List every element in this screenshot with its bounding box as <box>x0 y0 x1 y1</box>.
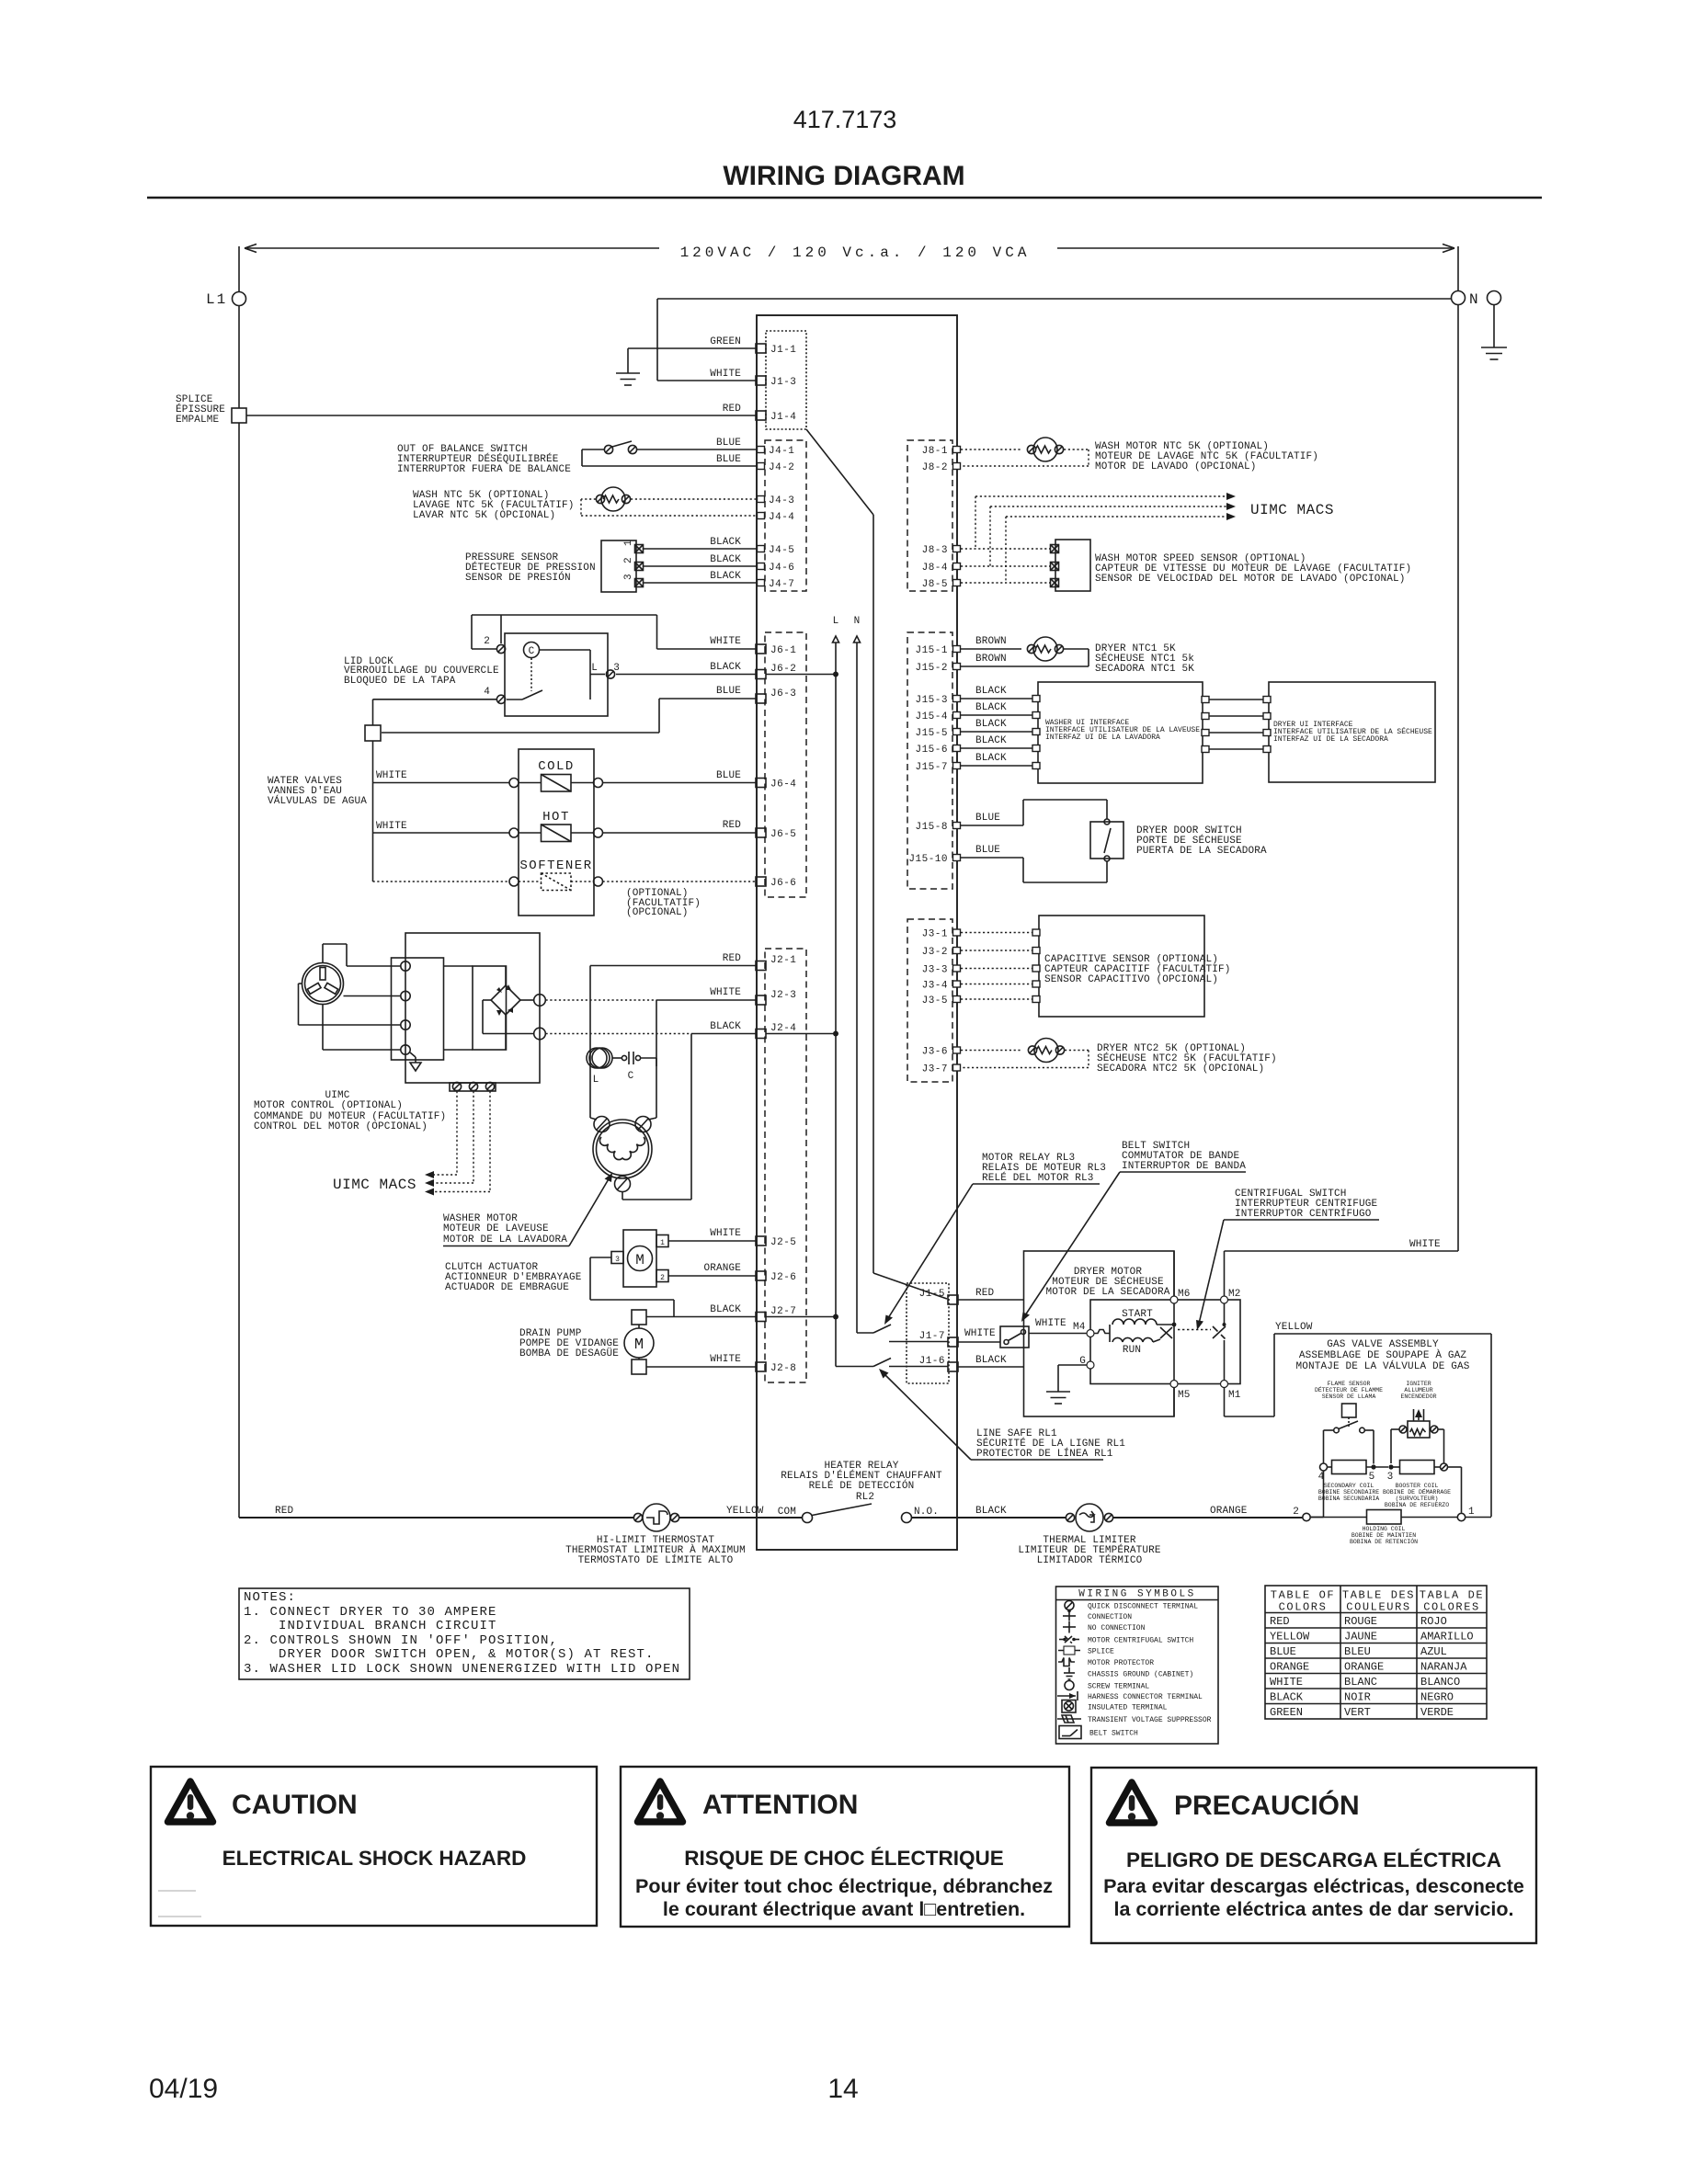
svg-text:RED: RED <box>723 953 742 964</box>
svg-text:2: 2 <box>623 557 634 563</box>
svg-text:BLEU: BLEU <box>1344 1645 1371 1658</box>
svg-text:COLD: COLD <box>538 759 575 774</box>
svg-text:(SURVOLTEUR): (SURVOLTEUR) <box>1396 1496 1439 1502</box>
120VAC right arrow line <box>1057 245 1454 253</box>
svg-text:DÉTECTEUR DE PRESSION: DÉTECTEUR DE PRESSION <box>465 561 596 574</box>
svg-text:J1-4: J1-4 <box>770 412 796 423</box>
connector J1 lower box <box>907 1283 949 1383</box>
svg-text:BLANCO: BLANCO <box>1420 1676 1460 1689</box>
svg-text:WHITE: WHITE <box>376 821 407 832</box>
UIMC MACS arrows left <box>333 1091 490 1196</box>
symbol connection <box>1063 1610 1132 1621</box>
bottom rail left with RED <box>239 1506 633 1518</box>
igniter <box>1399 1381 1438 1438</box>
wire WHITE J2-3 <box>546 987 757 1118</box>
pin J15-5 <box>915 728 960 739</box>
svg-text:ORANGE: ORANGE <box>1270 1661 1309 1674</box>
svg-text:RISQUE DE CHOC ÉLECTRIQUE: RISQUE DE CHOC ÉLECTRIQUE <box>684 1847 1004 1870</box>
wiring symbols table <box>1056 1587 1219 1744</box>
svg-text:J4-7: J4-7 <box>769 579 794 590</box>
heater relay RL2 contact <box>679 1504 939 1523</box>
svg-text:BLACK: BLACK <box>710 1021 741 1032</box>
svg-text:J6-3: J6-3 <box>770 688 796 700</box>
svg-text:WHITE: WHITE <box>376 770 407 781</box>
svg-text:120VAC / 120 Vc.a. / 120 VCA: 120VAC / 120 Vc.a. / 120 VCA <box>680 245 1031 261</box>
motor relay RL3 label with leader <box>884 1153 1106 1325</box>
svg-text:BLACK: BLACK <box>975 735 1007 746</box>
wire N vertical rail <box>1457 246 1459 291</box>
svg-text:J4-2: J4-2 <box>769 462 794 473</box>
svg-text:MOTEUR DE SÉCHEUSE: MOTEUR DE SÉCHEUSE <box>1052 1275 1164 1288</box>
connector J15 box <box>907 632 952 889</box>
pin J8-1 <box>922 446 961 457</box>
svg-text:BLACK: BLACK <box>1270 1691 1304 1704</box>
water valve box <box>519 749 594 916</box>
pin J1-5 <box>919 1289 958 1304</box>
wire BLACK bottom frame to M5 <box>1173 1388 1175 1417</box>
svg-text:2. CONTROLS SHOWN IN 'OFF' POS: 2. CONTROLS SHOWN IN 'OFF' POSITION, <box>244 1633 558 1648</box>
pin J2-1 <box>756 955 796 971</box>
svg-text:FLAME SENSOR: FLAME SENSOR <box>1328 1381 1371 1387</box>
pin J6-4 <box>756 779 796 791</box>
holding coil on rail <box>1293 1471 1491 1545</box>
connector J4 box <box>765 440 806 591</box>
svg-text:MOTOR PROTECTOR: MOTOR PROTECTOR <box>1088 1659 1154 1667</box>
svg-text:M5: M5 <box>1178 1390 1191 1401</box>
svg-text:WHITE: WHITE <box>710 987 741 998</box>
svg-text:3: 3 <box>1387 1472 1394 1483</box>
svg-text:Para evitar descargas eléctric: Para evitar descargas eléctricas, descon… <box>1103 1875 1524 1897</box>
dryer door switch <box>961 800 1267 882</box>
dryer UI interface <box>1263 682 1435 782</box>
pin J4-3 <box>758 495 795 506</box>
symbol no connection <box>1063 1621 1146 1633</box>
dryer motor start/run windings <box>1094 1309 1176 1356</box>
svg-text:INTERRUPTOR CENTRÍFUGO: INTERRUPTOR CENTRÍFUGO <box>1235 1207 1372 1220</box>
svg-text:JAUNE: JAUNE <box>1344 1631 1377 1644</box>
bottom rail BLACK segment <box>912 1506 1067 1518</box>
softener valve (optional) <box>373 859 603 891</box>
svg-text:SÉCHEUSE NTC1 5k: SÉCHEUSE NTC1 5k <box>1095 652 1194 665</box>
svg-text:M6: M6 <box>1178 1289 1191 1300</box>
pin J8-2 <box>922 462 961 473</box>
svg-text:HOT: HOT <box>542 810 570 825</box>
svg-text:BLUE: BLUE <box>975 813 1000 824</box>
pin J2-6 <box>756 1271 796 1283</box>
UIMC fan symbol <box>302 963 344 1005</box>
svg-text:5: 5 <box>1369 1472 1375 1483</box>
svg-text:J1-3: J1-3 <box>770 377 796 388</box>
svg-text:BOMBA DE DESAGÜE: BOMBA DE DESAGÜE <box>519 1348 619 1359</box>
svg-text:J15-7: J15-7 <box>915 762 948 773</box>
pin J15-2 <box>915 663 960 674</box>
svg-text:BOBINE SECONDAIRE: BOBINE SECONDAIRE <box>1318 1489 1379 1496</box>
svg-text:ORANGE: ORANGE <box>1344 1661 1384 1674</box>
svg-text:THERMOSTAT LIMITEUR À MAXIMUM: THERMOSTAT LIMITEUR À MAXIMUM <box>565 1543 746 1556</box>
svg-text:LIMITEUR DE TEMPÉRATURE: LIMITEUR DE TEMPÉRATURE <box>1018 1543 1161 1556</box>
chassis ground under relay block <box>410 1052 421 1071</box>
svg-text:UIMC MACS: UIMC MACS <box>333 1177 416 1193</box>
svg-text:SCREW TERMINAL: SCREW TERMINAL <box>1088 1683 1149 1691</box>
svg-text:PUERTA DE LA SECADORA: PUERTA DE LA SECADORA <box>1136 846 1267 857</box>
wash motor speed sensor <box>961 540 1411 591</box>
connector J1 upper box <box>766 331 806 429</box>
svg-text:1: 1 <box>660 1239 665 1247</box>
pin J6-1 <box>756 644 796 656</box>
lid lock <box>344 633 620 716</box>
svg-text:DÉTECTEUR DE FLAMME: DÉTECTEUR DE FLAMME <box>1315 1386 1383 1393</box>
svg-text:ELECTRICAL SHOCK HAZARD: ELECTRICAL SHOCK HAZARD <box>222 1847 527 1870</box>
wire RED J2-1 <box>590 953 756 1118</box>
svg-text:ATTENTION: ATTENTION <box>702 1790 858 1820</box>
pin J2-8 <box>756 1362 796 1374</box>
line safe RL1 label with leader <box>879 1369 1125 1460</box>
svg-text:INSULATED TERMINAL: INSULATED TERMINAL <box>1088 1704 1168 1712</box>
wire RED splice to J1-4 <box>246 404 756 415</box>
svg-text:INTERRUPTOR DE BANDA: INTERRUPTOR DE BANDA <box>1122 1161 1246 1172</box>
svg-text:BLUE: BLUE <box>716 770 741 781</box>
svg-text:C: C <box>529 646 535 657</box>
pin J4-6 <box>758 563 795 574</box>
svg-text:GREEN: GREEN <box>710 336 741 347</box>
svg-text:MOTOR DE LAVADO (OPCIONAL): MOTOR DE LAVADO (OPCIONAL) <box>1095 461 1257 472</box>
pin J1-4 <box>756 411 796 423</box>
svg-text:BOBINE DE DÉMARRAGE: BOBINE DE DÉMARRAGE <box>1383 1488 1451 1496</box>
wire clutch common to J2-7 <box>590 1257 674 1317</box>
pin J3-6 <box>922 1047 961 1058</box>
svg-text:CAUTION: CAUTION <box>232 1790 358 1820</box>
svg-text:RED: RED <box>723 820 742 831</box>
svg-text:J1-6: J1-6 <box>919 1356 945 1367</box>
svg-text:J6-2: J6-2 <box>770 664 796 675</box>
svg-text:417.7173: 417.7173 <box>793 106 897 133</box>
svg-text:J4-5: J4-5 <box>769 545 794 556</box>
node N terminal <box>1452 291 1501 309</box>
svg-text:ORANGE: ORANGE <box>703 1263 741 1274</box>
svg-text:YELLOW: YELLOW <box>1270 1631 1310 1644</box>
svg-text:SECADORA NTC2 5K (OPCIONAL): SECADORA NTC2 5K (OPCIONAL) <box>1097 1064 1264 1075</box>
svg-text:ROUGE: ROUGE <box>1344 1615 1377 1628</box>
svg-text:ASSEMBLAGE DE SOUPAPE À GAZ: ASSEMBLAGE DE SOUPAPE À GAZ <box>1299 1348 1467 1361</box>
svg-text:BLOQUEO DE LA TAPA: BLOQUEO DE LA TAPA <box>344 676 456 687</box>
connector J8 box <box>907 440 952 591</box>
pin J4-5 <box>758 545 795 556</box>
svg-text:COLORS: COLORS <box>1279 1601 1328 1614</box>
svg-text:3: 3 <box>615 1256 620 1264</box>
svg-text:J8-2: J8-2 <box>922 462 948 473</box>
svg-text:J15-2: J15-2 <box>915 663 948 674</box>
svg-text:BLANC: BLANC <box>1344 1676 1377 1689</box>
wire WHITE M2 to N line <box>1225 1239 1459 1296</box>
relay RL3 contact (N feed to J1-7) <box>857 1325 948 1342</box>
svg-text:3. WASHER LID LOCK SHOWN UNENE: 3. WASHER LID LOCK SHOWN UNENERGIZED WIT… <box>244 1662 680 1677</box>
wire ORANGE J2-6 <box>668 1263 756 1276</box>
svg-text:LAVAR NTC 5K (OPCIONAL): LAVAR NTC 5K (OPCIONAL) <box>413 510 555 521</box>
UIMC label <box>254 1090 446 1132</box>
svg-text:1: 1 <box>623 540 634 546</box>
pressure sensor <box>465 540 644 592</box>
fan lead top <box>323 944 401 966</box>
svg-text:L: L <box>591 663 598 674</box>
wire from J1 box to line-safe feed <box>806 429 947 1299</box>
pin J3-3 <box>922 965 961 976</box>
svg-text:M4: M4 <box>1073 1322 1086 1333</box>
wire BLACK J15-6 <box>961 735 1032 748</box>
pin J6-6 <box>756 877 796 889</box>
svg-text:WHITE: WHITE <box>1409 1239 1441 1250</box>
wire BLACK J2-7 to L line <box>646 1304 838 1320</box>
svg-text:START: START <box>1122 1309 1153 1320</box>
pin J2-5 <box>756 1236 796 1248</box>
svg-text:WHITE: WHITE <box>710 369 741 380</box>
svg-text:RELAIS D'ÉLÉMENT CHAUFFANT: RELAIS D'ÉLÉMENT CHAUFFANT <box>781 1469 942 1482</box>
wire RED top of dryer motor frame to M6 <box>1173 1251 1175 1296</box>
svg-text:RED: RED <box>723 404 742 415</box>
svg-text:TERMOSTATO DE LÍMITE ALTO: TERMOSTATO DE LÍMITE ALTO <box>578 1553 734 1566</box>
wire BLUE J4-1 <box>582 438 758 466</box>
svg-text:HARNESS CONNECTOR TERMINAL: HARNESS CONNECTOR TERMINAL <box>1088 1693 1203 1701</box>
svg-text:BLUE: BLUE <box>1270 1645 1296 1658</box>
centrifugal switch contact <box>1178 1303 1226 1381</box>
svg-text:J3-4: J3-4 <box>922 981 948 992</box>
svg-text:BOBINA DE REFUERZO: BOBINA DE REFUERZO <box>1385 1502 1449 1508</box>
svg-text:INDIVIDUAL BRANCH CIRCUIT: INDIVIDUAL BRANCH CIRCUIT <box>244 1619 497 1633</box>
wire BLACK J4-7 <box>644 571 758 583</box>
svg-text:BLACK: BLACK <box>975 702 1007 713</box>
dryer motor label <box>1045 1267 1169 1298</box>
svg-text:CONNECTION: CONNECTION <box>1088 1613 1132 1621</box>
pin J15-3 <box>915 695 960 706</box>
svg-text:WHITE: WHITE <box>1035 1318 1066 1329</box>
svg-text:BLACK: BLACK <box>975 686 1007 697</box>
wire RED J6-5 <box>603 820 757 833</box>
pin J4-1 <box>758 446 795 457</box>
svg-text:BROWN: BROWN <box>975 654 1007 665</box>
svg-text:4: 4 <box>484 687 490 698</box>
centrifugal switch label with leader <box>1196 1189 1379 1330</box>
svg-text:HOLDING COIL: HOLDING COIL <box>1363 1526 1406 1532</box>
svg-text:(OPCIONAL): (OPCIONAL) <box>626 907 689 918</box>
water valves label <box>268 776 367 807</box>
svg-text:J2-3: J2-3 <box>770 990 796 1001</box>
svg-text:CONTROL DEL MOTOR (OPCIONAL): CONTROL DEL MOTOR (OPCIONAL) <box>254 1121 428 1132</box>
pin J6-3 <box>756 688 796 703</box>
svg-text:SENSOR DE LLAMA: SENSOR DE LLAMA <box>1322 1393 1376 1400</box>
svg-text:CHASSIS GROUND (CABINET): CHASSIS GROUND (CABINET) <box>1088 1671 1193 1679</box>
svg-text:J15-8: J15-8 <box>915 822 948 833</box>
wire BLACK J15-4 <box>961 702 1032 715</box>
pin J8-5 <box>922 579 961 590</box>
svg-text:SPLICE: SPLICE <box>1088 1648 1114 1656</box>
pin J15-4 <box>915 711 960 722</box>
pin J3-5 <box>922 995 961 1007</box>
svg-text:AZUL: AZUL <box>1420 1645 1447 1658</box>
svg-text:NOIR: NOIR <box>1344 1691 1371 1704</box>
svg-text:RED: RED <box>1270 1615 1290 1628</box>
L and N feed arrows at board top <box>833 616 861 1333</box>
symbol belt switch <box>1059 1726 1138 1739</box>
svg-text:PORTE DE SÉCHEUSE: PORTE DE SÉCHEUSE <box>1136 834 1242 847</box>
svg-text:J1-5: J1-5 <box>919 1289 945 1300</box>
svg-text:J2-5: J2-5 <box>770 1237 796 1248</box>
svg-text:RUN: RUN <box>1123 1345 1141 1356</box>
svg-text:COM: COM <box>778 1507 796 1518</box>
svg-text:VERT: VERT <box>1344 1706 1371 1719</box>
svg-text:J3-5: J3-5 <box>922 995 948 1007</box>
capacitive sensor <box>961 916 1231 1017</box>
pin J6-5 <box>756 828 796 840</box>
svg-text:VÁLVULAS DE AGUA: VÁLVULAS DE AGUA <box>268 794 367 807</box>
symbol splice <box>1058 1646 1114 1656</box>
UIMC motor control outer box <box>405 933 540 1083</box>
pin J4-4 <box>758 512 795 523</box>
clutch actuator <box>445 1230 668 1293</box>
pin J4-7 <box>758 579 795 590</box>
svg-text:J8-1: J8-1 <box>922 446 948 457</box>
svg-text:DRYER DOOR SWITCH OPEN, & MOTO: DRYER DOOR SWITCH OPEN, & MOTOR(S) AT RE… <box>244 1647 655 1662</box>
svg-text:WIRING DIAGRAM: WIRING DIAGRAM <box>723 161 964 191</box>
pin J1-6 <box>919 1356 958 1371</box>
svg-text:GAS VALVE ASSEMBLY: GAS VALVE ASSEMBLY <box>1327 1339 1439 1350</box>
pin J3-1 <box>922 929 961 940</box>
svg-text:J6-6: J6-6 <box>770 878 796 889</box>
svg-text:TABLE OF: TABLE OF <box>1271 1589 1335 1602</box>
svg-text:BLUE: BLUE <box>975 845 1000 856</box>
svg-text:NARANJA: NARANJA <box>1420 1661 1467 1674</box>
svg-text:SOFTENER: SOFTENER <box>519 859 592 873</box>
wire splice common down to valves <box>372 741 374 882</box>
svg-text:2: 2 <box>1293 1507 1299 1518</box>
svg-text:SECONDARY COIL: SECONDARY COIL <box>1324 1483 1374 1489</box>
svg-text:COLORES: COLORES <box>1423 1601 1480 1614</box>
drain pump <box>519 1310 654 1374</box>
pin J15-6 <box>915 745 960 756</box>
wire WHITE J1-3 to top rail <box>657 299 1452 381</box>
relay RL1 contact (L feed to J1-6) <box>836 1333 948 1367</box>
pin J1-7 <box>919 1331 958 1347</box>
svg-text:M: M <box>634 1337 644 1354</box>
wire BLUE J4-2 <box>582 454 758 466</box>
svg-text:2: 2 <box>484 636 490 647</box>
svg-text:RED: RED <box>275 1506 294 1517</box>
svg-text:L: L <box>593 1075 599 1086</box>
svg-text:RELÉ DE DETECCIÓN: RELÉ DE DETECCIÓN <box>809 1479 915 1492</box>
caution box english <box>151 1767 597 1926</box>
wire J4-4 dotted <box>581 515 758 517</box>
svg-text:AMARILLO: AMARILLO <box>1420 1631 1474 1644</box>
pin J15-8 <box>915 822 960 833</box>
washer motor label with leader <box>443 1173 612 1246</box>
symbol chassis ground <box>1064 1667 1193 1679</box>
svg-text:J15-6: J15-6 <box>915 745 948 756</box>
svg-text:BOBINA DE RETENCIÓN: BOBINA DE RETENCIÓN <box>1350 1537 1418 1545</box>
wire BLACK J2-4 to L line <box>546 1021 839 1200</box>
pin J15-1 <box>915 645 960 656</box>
wire WHITE J1-7 to belt switch <box>958 1328 1000 1342</box>
pin J3-2 <box>922 947 961 958</box>
svg-text:WHITE: WHITE <box>964 1328 996 1339</box>
svg-text:J6-5: J6-5 <box>770 829 796 840</box>
svg-text:INTERFAZ UI DE LA SECADORA: INTERFAZ UI DE LA SECADORA <box>1273 735 1388 744</box>
svg-text:J15-10: J15-10 <box>908 854 948 865</box>
fan lead left <box>299 984 402 1025</box>
svg-text:J15-1: J15-1 <box>915 645 948 656</box>
svg-text:BLACK: BLACK <box>710 662 741 673</box>
wire RED J1-5 to dryer motor frame <box>958 1288 1024 1300</box>
washer motor <box>590 1117 691 1200</box>
svg-text:J15-3: J15-3 <box>915 695 948 706</box>
svg-text:WHITE: WHITE <box>710 636 741 647</box>
svg-text:J2-6: J2-6 <box>770 1272 796 1283</box>
svg-text:J2-7: J2-7 <box>770 1306 796 1317</box>
svg-text:BLACK: BLACK <box>710 537 741 548</box>
svg-text:N.O.: N.O. <box>914 1507 939 1518</box>
wire WHITE J6-1 <box>472 615 756 649</box>
svg-text:M: M <box>635 1252 644 1268</box>
control board outline <box>757 315 957 1550</box>
wire terminal4 to splice <box>373 700 497 725</box>
booster coil <box>1383 1429 1462 1513</box>
UIMC bridge rectifier <box>444 966 546 1050</box>
svg-text:SECADORA NTC1 5K: SECADORA NTC1 5K <box>1095 664 1194 675</box>
svg-text:J8-4: J8-4 <box>922 563 948 574</box>
svg-text:ALLUMEUR: ALLUMEUR <box>1404 1387 1432 1393</box>
svg-text:BLACK: BLACK <box>975 719 1007 730</box>
pin J2-4 <box>756 1023 796 1039</box>
svg-text:MOTOR DE LA SECADORA: MOTOR DE LA SECADORA <box>1045 1287 1169 1298</box>
pin J3-7 <box>922 1064 961 1075</box>
out of balance switch <box>397 441 637 475</box>
caution box french <box>621 1767 1069 1927</box>
svg-text:BLUE: BLUE <box>716 686 741 697</box>
dryer motor inner box <box>1073 1289 1241 1401</box>
dryer NTC1 5K <box>961 636 1194 675</box>
wire BLACK J1-6 to dryer motor frame <box>958 1355 1024 1367</box>
svg-text:YELLOW: YELLOW <box>726 1506 764 1517</box>
svg-text:la corriente eléctrica antes d: la corriente eléctrica antes de dar serv… <box>1114 1898 1514 1920</box>
svg-text:SENSOR DE PRESIÓN: SENSOR DE PRESIÓN <box>465 571 571 584</box>
splice at water valves <box>365 725 381 741</box>
symbol quick disconnect <box>1065 1601 1198 1611</box>
wire BLACK J15-5 <box>961 719 1032 732</box>
svg-text:BELT SWITCH: BELT SWITCH <box>1089 1730 1138 1738</box>
heading rule <box>147 197 1542 199</box>
svg-text:3: 3 <box>623 574 634 580</box>
svg-text:J1-1: J1-1 <box>770 345 796 356</box>
svg-text:UIMC MACS: UIMC MACS <box>1250 502 1334 518</box>
svg-text:RL2: RL2 <box>856 1492 874 1503</box>
svg-text:J3-2: J3-2 <box>922 947 948 958</box>
svg-text:LIMITADOR TÉRMICO: LIMITADOR TÉRMICO <box>1037 1553 1143 1566</box>
pin J6-2 <box>756 664 796 679</box>
hot valve <box>373 810 603 842</box>
svg-text:J15-4: J15-4 <box>915 711 948 722</box>
wash NTC 5K <box>413 487 631 521</box>
svg-text:ÉPISSURE: ÉPISSURE <box>176 403 225 415</box>
svg-text:le courant électrique avant l□: le courant électrique avant l□entretien. <box>663 1898 1025 1920</box>
svg-text:J2-4: J2-4 <box>770 1023 796 1034</box>
UIMC MACS arrows right <box>975 493 1334 583</box>
svg-text:J4-3: J4-3 <box>769 495 794 506</box>
svg-text:L1: L1 <box>206 291 227 308</box>
caution box spanish <box>1091 1768 1536 1943</box>
washer UI interface <box>1032 682 1203 783</box>
pin J2-3 <box>756 990 796 1005</box>
belt switch <box>1000 1326 1029 1348</box>
svg-text:NO CONNECTION: NO CONNECTION <box>1088 1624 1146 1632</box>
svg-text:ENCENDEDOR: ENCENDEDOR <box>1400 1393 1436 1400</box>
pin J1-1 <box>756 344 796 356</box>
